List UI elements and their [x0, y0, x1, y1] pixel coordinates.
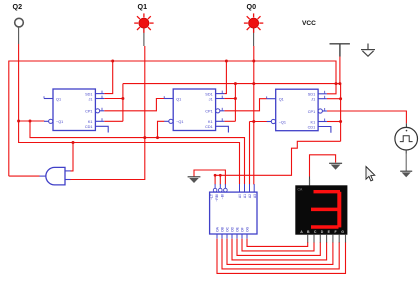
wire: FF3 K pin link — [327, 121, 341, 123]
wire: FF2 J/K tie vertical — [234, 84, 236, 122]
power VCC symbol — [330, 44, 350, 57]
svg-text:A0: A0 — [238, 194, 242, 198]
wire: FF3 J pin link — [327, 98, 341, 100]
wire: AND gate output to left rail — [9, 175, 40, 177]
node: Q1 to decoder junction — [143, 136, 146, 139]
wire: FF1 K pin link — [104, 120, 123, 122]
node: preset line / Q0 crossing — [252, 60, 255, 63]
svg-text:Q0: Q0 — [247, 2, 257, 11]
decoder U4 (BCD to 7-seg) — [210, 184, 257, 239]
wire: segment bus a — [217, 239, 346, 274]
wire: ~Q3 drop to decoder input A2 — [249, 122, 251, 185]
wire: Q2 probe vertical down to ~Q1 node — [18, 44, 20, 121]
wire: Q0 probe lead (dark upper part) — [253, 28, 255, 46]
wire: tap from Q2 net to AND gate input 1 — [70, 143, 73, 171]
node: FF2 ~Q branch junction — [156, 136, 159, 139]
wire: tie line down-left to decoder lamp-test pins — [215, 141, 341, 175]
svg-text:OF: OF — [241, 227, 245, 232]
svg-text:G: G — [341, 230, 344, 234]
AND gate A1 — [40, 167, 71, 185]
svg-text:~RBI: ~RBI — [215, 194, 219, 202]
node: preset tap FF1 — [111, 60, 114, 63]
signal source V1 — [395, 123, 418, 153]
probe Q2 (off) — [15, 18, 24, 27]
probe Q1 (lit) — [134, 13, 153, 32]
wire: drop to decoder pin RBI — [219, 175, 221, 184]
wire: ~Q1 second branch down and right to decoder input A1 — [30, 121, 245, 184]
svg-text:OE: OE — [236, 226, 240, 232]
svg-text:OG: OG — [246, 226, 250, 232]
wire: preset tap to FF2 SD — [224, 61, 226, 94]
svg-text:OD: OD — [231, 226, 235, 232]
seven-segment display — [295, 179, 347, 243]
svg-text:OA: OA — [216, 226, 220, 232]
svg-text:~LT: ~LT — [210, 194, 214, 200]
svg-text:Q2: Q2 — [13, 2, 23, 11]
svg-text:A3: A3 — [253, 194, 257, 198]
mouse cursor — [366, 167, 375, 181]
wire: ~Q3 output link — [250, 121, 268, 123]
wire: segment bus f — [242, 239, 314, 251]
svg-text:CA: CA — [298, 188, 303, 192]
ground (top right) — [361, 44, 375, 57]
flip-flop U1 — [44, 89, 108, 133]
wire: segment bus g — [247, 239, 308, 247]
wire: FF1 J pin link — [104, 98, 123, 100]
node: ~Q1 branch junction — [29, 120, 32, 123]
wire: Q0 probe vertical down to decoder input A3 — [253, 46, 255, 185]
ground (display CA) — [329, 163, 342, 170]
wire: FF2 Q output to FF1 clock — [104, 99, 164, 111]
svg-text:~BI: ~BI — [220, 194, 224, 199]
wire: display CA pin dark part — [309, 177, 311, 186]
svg-text:OC: OC — [226, 226, 230, 232]
node: FF2 J tie junction — [234, 97, 237, 100]
wire: drop to decoder pin LT — [214, 175, 216, 184]
wire: FF3 J/K tie vertical extended down — [340, 84, 342, 142]
node: VCC rail FF2 tie junction — [234, 82, 237, 85]
wire: Q1 probe vertical — [144, 46, 146, 138]
node: decoder LT tap junction — [214, 174, 217, 177]
svg-text:OB: OB — [221, 226, 225, 232]
node: FF1 J tie junction — [121, 97, 124, 100]
svg-text:A1: A1 — [243, 194, 247, 198]
wire: signal source bottom to ground — [405, 154, 407, 172]
node: Q2 / ~Q1 junction — [17, 120, 20, 123]
ground (signal source) — [400, 171, 412, 177]
node: decoder RBI tap junction — [219, 174, 222, 177]
flip-flop U2 — [164, 89, 228, 133]
svg-text:VCC: VCC — [302, 20, 316, 27]
node: AND input tap junction — [72, 141, 75, 144]
wire: branch up to FF2 ~Q pin — [158, 121, 165, 137]
wire: FF1 J/K tie vertical — [122, 84, 124, 122]
wire: segment bus b — [222, 239, 339, 269]
node: ~Q3 / Q0 junction — [252, 120, 255, 123]
wire: ~Q1 output link — [19, 120, 45, 122]
wire: preset tap to FF1 SD — [104, 61, 113, 94]
wire: VCC stem red part — [339, 57, 341, 84]
svg-text:Q1: Q1 — [138, 2, 148, 11]
wire: Q2 probe lead (dark upper part) — [18, 27, 20, 44]
wire: Q1 net down to AND gate input 2 — [70, 138, 145, 180]
wire: preset line from AND output up, across top, down to FF3 SD — [9, 61, 336, 176]
wire: ground to decoder BI pin — [194, 170, 225, 185]
node: FF3 J tie junction — [339, 97, 342, 100]
node: VCC rail preset crossing junction — [335, 82, 338, 85]
node: FF3 K tie junction — [339, 120, 342, 123]
wire: Q1 probe lead (dark upper part) — [143, 28, 145, 46]
wire: FF2 J pin link — [224, 98, 235, 100]
wire: segment bus d — [232, 239, 327, 260]
probe Q0 (lit) — [244, 13, 263, 32]
wire: Q2 net down and right to decoder input A0 — [19, 121, 240, 184]
node: VCC rail Q0 crossing junction — [252, 82, 255, 85]
node: VCC stem junction — [338, 82, 341, 85]
wire: VCC horizontal rail — [123, 83, 341, 85]
wire: FF2 K pin link — [224, 120, 235, 122]
ground (decoder, left) — [188, 177, 201, 183]
svg-text:A2: A2 — [248, 194, 252, 198]
flip-flop U3 — [267, 89, 331, 133]
wire: segment bus e — [237, 239, 320, 256]
wire: FF3 clock to signal source — [327, 111, 407, 123]
wire: segment bus c — [227, 239, 333, 265]
node: preset tap FF2 — [225, 60, 228, 63]
wire: FF3 Q output to FF2 clock — [224, 99, 266, 111]
wire: display common anode to ground — [310, 155, 336, 177]
